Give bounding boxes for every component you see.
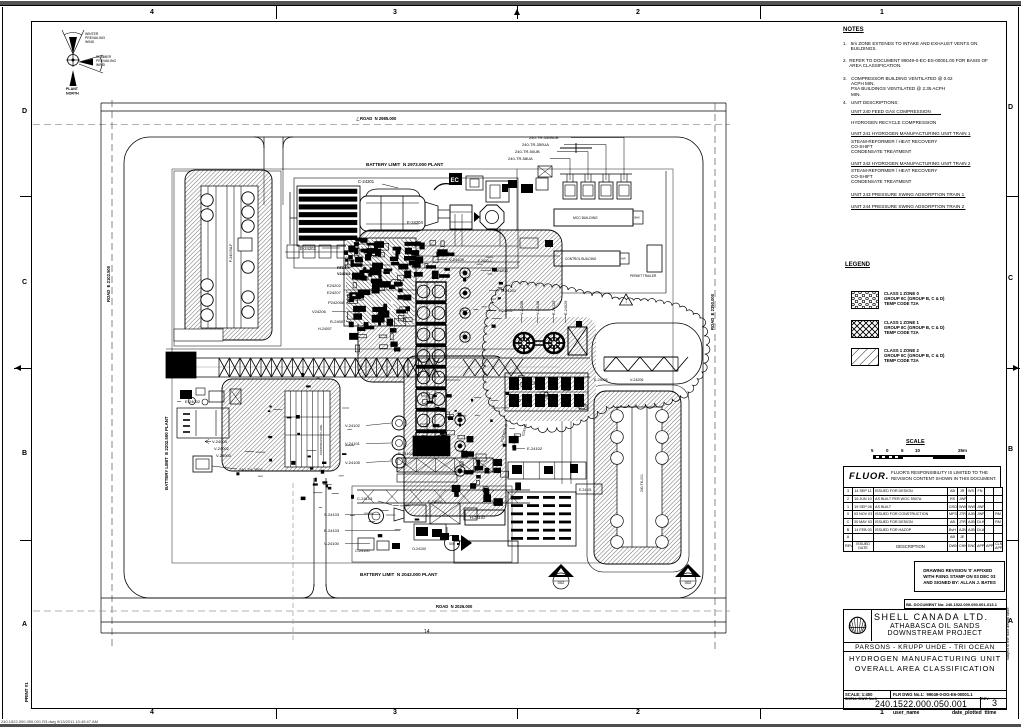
svg-text:E-24029: E-24029 xyxy=(564,301,568,315)
svg-text:V-24102: V-24102 xyxy=(345,423,361,428)
svg-text:V-24206: V-24206 xyxy=(630,378,643,382)
svg-text:E-24002: E-24002 xyxy=(185,399,201,404)
svg-text:R-24007: R-24007 xyxy=(330,319,346,324)
svg-text:Y-24202: Y-24202 xyxy=(498,308,514,313)
svg-text:NORTH: NORTH xyxy=(66,92,79,96)
svg-text:240-TR-50UB: 240-TR-50UB xyxy=(515,149,540,154)
svg-text:E24202: E24202 xyxy=(327,283,342,288)
svg-text:V-24105: V-24105 xyxy=(345,460,361,465)
svg-text:E24207: E24207 xyxy=(327,290,342,295)
svg-text:H-24007: H-24007 xyxy=(318,327,332,331)
svg-text:H-24102: H-24102 xyxy=(470,515,486,520)
svg-text:PLANT: PLANT xyxy=(66,87,79,91)
svg-text:HVA: HVA xyxy=(621,258,626,261)
svg-text:E-24201: E-24201 xyxy=(501,288,517,293)
svg-text:PERMIT TRAILER: PERMIT TRAILER xyxy=(630,274,657,278)
svg-text:COMPRESSOR LUBE: COMPRESSOR LUBE xyxy=(319,425,323,455)
svg-text:F 2420-3: F 2420-3 xyxy=(478,259,492,263)
svg-text:240-TR-58UA: 240-TR-58UA xyxy=(508,156,533,161)
svg-text:E-24202: E-24202 xyxy=(300,246,317,251)
svg-text:V-24005: V-24005 xyxy=(212,439,228,444)
svg-text:P-24005A-F: P-24005A-F xyxy=(229,244,233,262)
svg-text:240-TR-350BUB: 240-TR-350BUB xyxy=(529,135,559,140)
svg-text:E-24204: E-24204 xyxy=(407,220,424,225)
svg-text:BATTERY LIMIT N 2973.000 PLAN: BATTERY LIMIT N 2973.000 PLANT xyxy=(366,162,443,167)
svg-text:240-TH-3502: 240-TH-3502 xyxy=(239,467,263,472)
svg-text:C-24201: C-24201 xyxy=(358,179,375,184)
svg-text:C-24103: C-24103 xyxy=(357,496,373,501)
svg-text:E-24129: E-24129 xyxy=(552,301,556,315)
svg-text:C-24100: C-24100 xyxy=(355,549,370,553)
svg-text:RFDL2: RFDL2 xyxy=(337,266,349,270)
svg-text:BATTERY LIMIT N 2043.000 PLAN: BATTERY LIMIT N 2043.000 PLANT xyxy=(360,572,437,577)
svg-text:BATTERY LIMIT E 2202.500 PLAN: BATTERY LIMIT E 2202.500 PLANT xyxy=(164,416,169,490)
svg-text:240-TK-001: 240-TK-001 xyxy=(640,474,644,492)
svg-text:ROAD N 2985.000: ROAD N 2985.000 xyxy=(360,116,397,121)
svg-text:E-24026: E-24026 xyxy=(594,378,608,382)
svg-text:V-24108: V-24108 xyxy=(536,301,540,315)
svg-text:WIND: WIND xyxy=(96,63,106,67)
svg-text:EC: EC xyxy=(451,178,460,184)
svg-text:V-24100: V-24100 xyxy=(324,541,340,546)
svg-text:WIND: WIND xyxy=(85,40,95,44)
svg-text:P24200A: P24200A xyxy=(328,300,345,305)
svg-text:BHK: BHK xyxy=(635,216,641,220)
svg-text:V-24000: V-24000 xyxy=(216,453,232,458)
svg-text:240-TR-350UA: 240-TR-350UA xyxy=(522,142,549,147)
svg-text:S-24103: S-24103 xyxy=(324,512,340,517)
svg-text:V24206: V24206 xyxy=(312,309,327,314)
svg-text:V-24109: V-24109 xyxy=(449,257,465,262)
svg-text:V-24002: V-24002 xyxy=(214,446,230,451)
svg-text:V-24208: V-24208 xyxy=(520,301,524,315)
svg-text:MCC BUILDING: MCC BUILDING xyxy=(573,216,598,220)
svg-text:V24204: V24204 xyxy=(337,272,351,276)
svg-text:000: 000 xyxy=(449,542,455,546)
svg-text:E-24103: E-24103 xyxy=(324,528,340,533)
svg-text:E-24101: E-24101 xyxy=(579,488,592,492)
svg-text:ROAD N 2026.000: ROAD N 2026.000 xyxy=(436,604,473,609)
svg-text:CONTROL BUILDING: CONTROL BUILDING xyxy=(565,257,597,261)
svg-text:ROAD E 2350.000: ROAD E 2350.000 xyxy=(710,293,715,330)
svg-text:E-24102: E-24102 xyxy=(398,451,414,456)
svg-text:!: ! xyxy=(625,300,626,305)
svg-text:E-24102: E-24102 xyxy=(527,446,543,451)
svg-text:O-24100: O-24100 xyxy=(412,547,426,551)
svg-text:ℒ: ℒ xyxy=(356,117,360,123)
svg-text:ROAD E 2102.500: ROAD E 2102.500 xyxy=(106,265,111,302)
